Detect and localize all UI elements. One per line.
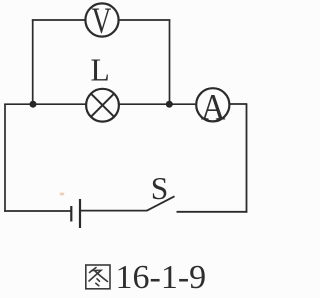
battery short plate (-) bbox=[70, 206, 72, 222]
node junction dot left bbox=[30, 101, 37, 108]
switch S blade bbox=[147, 196, 175, 211]
lamp X cross stroke 1 bbox=[91, 94, 114, 117]
wire left edge to battery bbox=[4, 210, 71, 212]
svg-text:V: V bbox=[92, 1, 112, 42]
wire voltmeter-loop left vertical bbox=[32, 20, 34, 104]
wire left vertical bbox=[4, 104, 6, 212]
wire bottom right segment bbox=[177, 211, 248, 213]
wire main left horizontal bbox=[4, 103, 86, 105]
wire ammeter to right edge bbox=[230, 103, 248, 105]
lamp L circle bbox=[86, 89, 119, 122]
voltmeter U-V circle bbox=[85, 3, 118, 36]
wire between lamp and ammeter bbox=[119, 103, 197, 105]
wire right vertical bbox=[246, 104, 248, 213]
wire voltmeter-loop top right segment bbox=[120, 19, 171, 21]
svg-text:S: S bbox=[151, 171, 169, 206]
battery long plate (+) bbox=[79, 199, 81, 228]
svg-text:A: A bbox=[201, 86, 226, 128]
lamp X cross stroke 2 bbox=[91, 94, 114, 117]
node junction dot right bbox=[166, 101, 173, 108]
stray orange speck bbox=[60, 193, 65, 196]
wire voltmeter-loop right vertical bbox=[169, 20, 171, 104]
ammeter U-A circle bbox=[196, 88, 229, 121]
wire battery to switch bbox=[80, 210, 147, 212]
wire voltmeter-loop top left segment bbox=[32, 19, 85, 21]
caption hanzi TU (figure) drawn as strokes bbox=[86, 265, 110, 289]
svg-text:L: L bbox=[91, 53, 110, 88]
svg-text:16-1-9: 16-1-9 bbox=[116, 259, 207, 296]
